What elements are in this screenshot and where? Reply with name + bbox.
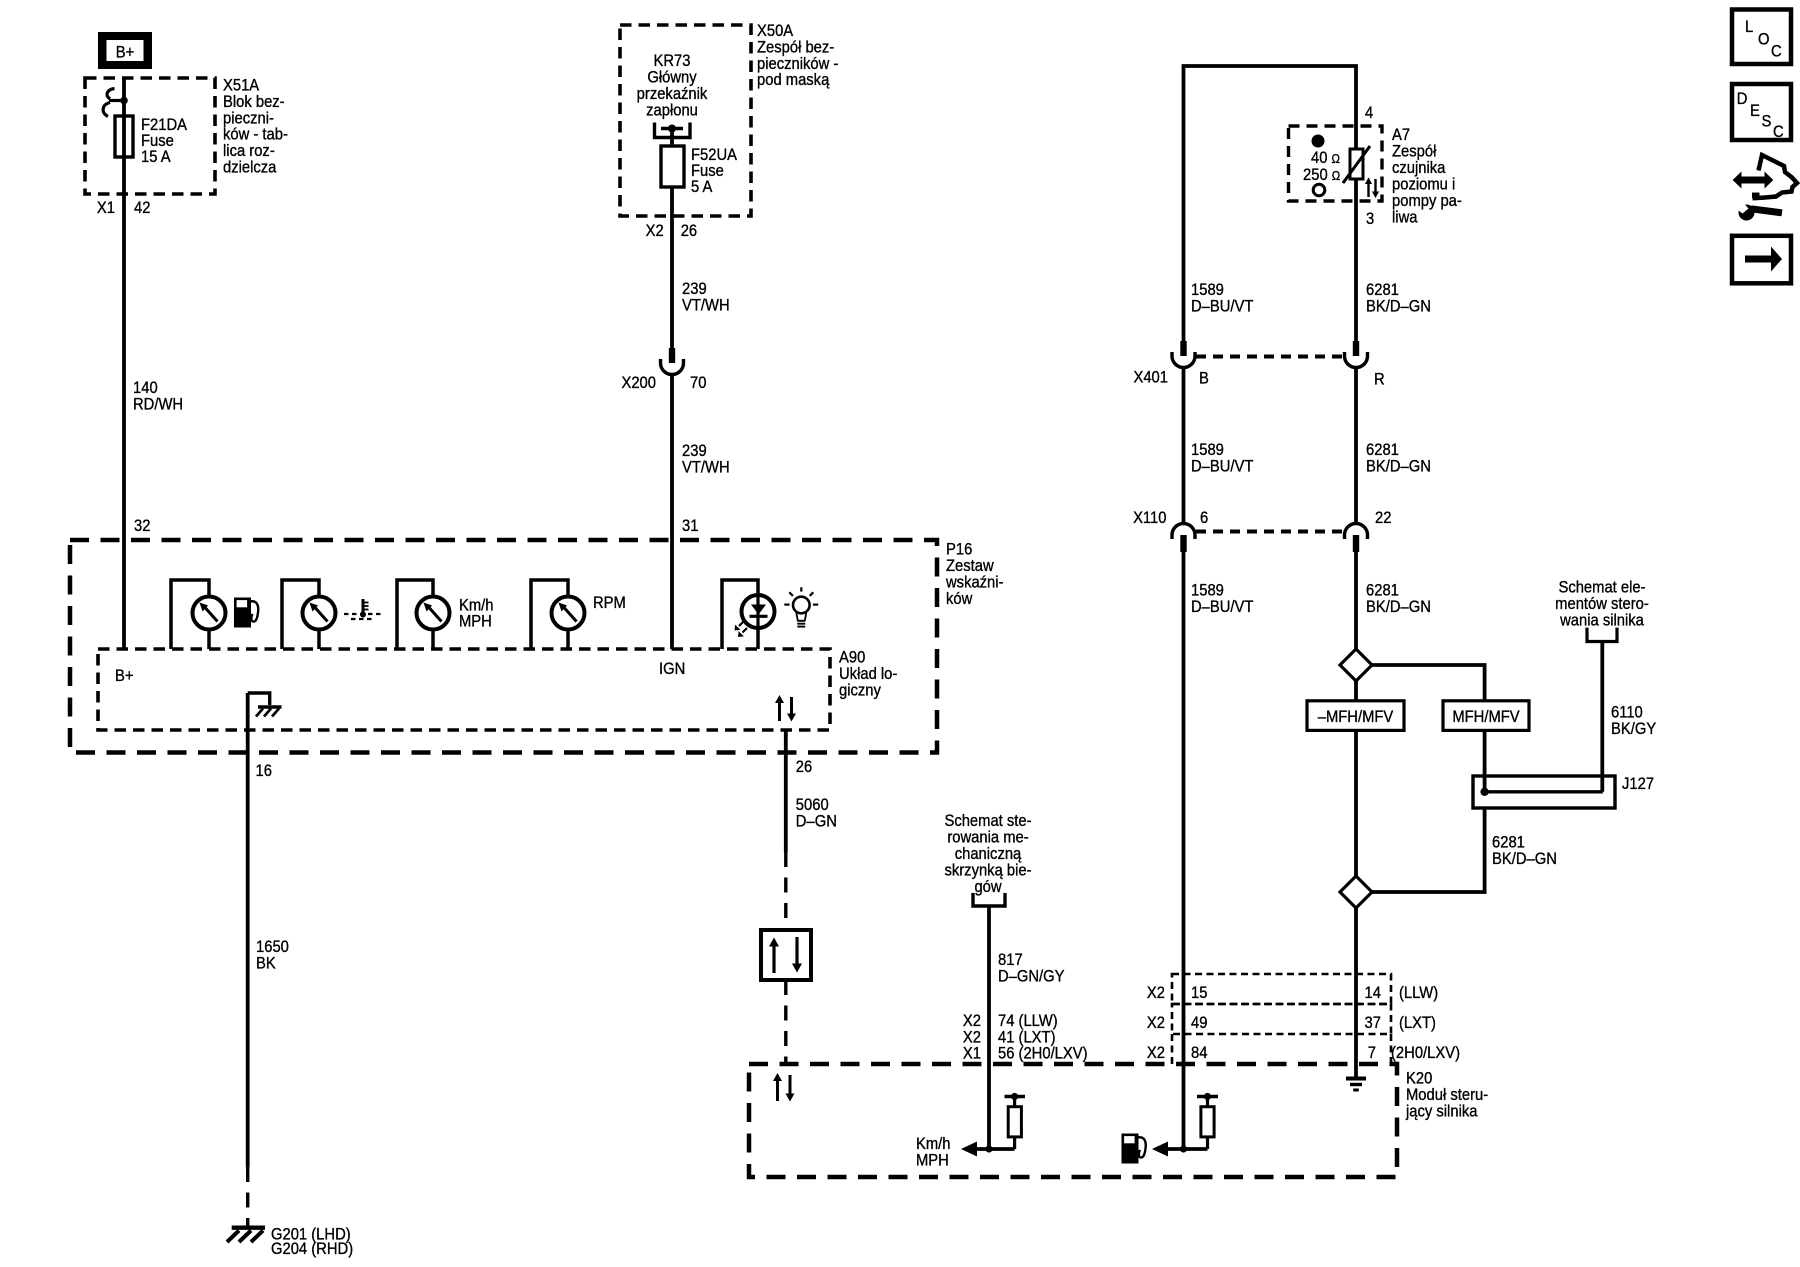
svg-text:X110: X110 (1133, 509, 1167, 527)
label 5060 D-GN (796, 796, 837, 831)
svg-text:C: C (1773, 123, 1784, 141)
indicator LED (722, 580, 775, 649)
fuel gauge (171, 580, 226, 649)
svg-text:1650: 1650 (256, 938, 289, 956)
svg-text:RPM: RPM (593, 594, 626, 612)
connector row LXT (1172, 1004, 1391, 1034)
label 1650 BK (256, 938, 289, 973)
box -MFH/MFV (1307, 701, 1404, 731)
svg-text:239: 239 (682, 280, 707, 298)
svg-text:B: B (1199, 370, 1209, 388)
label 6281 BK/D-GN (1366, 281, 1431, 316)
svg-text:czujnika: czujnika (1392, 159, 1446, 177)
svg-text:X200: X200 (621, 374, 656, 392)
connector X200 pin 70 (621, 348, 706, 392)
svg-text:1589: 1589 (1191, 582, 1224, 600)
label X50A Zespól bezpieczników pod maską (757, 22, 838, 89)
wire 1589 lower (1182, 552, 1186, 1149)
svg-text:D: D (1737, 90, 1748, 108)
label 1589 D-BU/VT third (1191, 582, 1254, 617)
svg-text:5060: 5060 (796, 796, 829, 814)
icon DESC (1732, 84, 1791, 141)
connector rows X2/X1 left (963, 1012, 1088, 1063)
variable resistor sender (1343, 146, 1370, 183)
svg-text:pompy pa-: pompy pa- (1392, 192, 1462, 210)
engine control module K20 box (749, 1064, 1397, 1177)
clip terminal in X51A (103, 89, 128, 117)
row labels right (1147, 984, 1460, 1062)
svg-text:P16: P16 (946, 541, 972, 559)
svg-text:74 (LLW): 74 (LLW) (998, 1012, 1058, 1030)
relay KR73 Główny przekaźnik zapłonu (637, 52, 708, 137)
svg-text:IGN: IGN (659, 660, 685, 678)
label A7 Zespół czujnika poziomu i pompy paliwa (1392, 126, 1462, 227)
svg-text:26: 26 (796, 758, 813, 776)
svg-text:zapłonu: zapłonu (646, 102, 698, 120)
svg-text:49: 49 (1191, 1014, 1208, 1032)
svg-text:VT/WH: VT/WH (682, 459, 730, 477)
wire 5060 D-GN (784, 730, 788, 852)
svg-text:R: R (1374, 371, 1385, 389)
svg-text:Układ lo-: Układ lo- (839, 665, 897, 683)
label 239 VT/WH (682, 280, 730, 315)
svg-text:O: O (1758, 31, 1770, 49)
wire 817 D-GN/GY (987, 906, 991, 1149)
svg-text:X401: X401 (1133, 369, 1168, 387)
wire from relay to fuse (670, 129, 674, 147)
wire 6281 through -MFH/MFV (1354, 681, 1358, 876)
svg-text:X2: X2 (963, 1012, 981, 1030)
label 1589 D-BU/VT second (1191, 441, 1254, 476)
instrument cluster P16 box (70, 540, 937, 753)
svg-text:Schemat ste-: Schemat ste- (944, 812, 1031, 830)
svg-text:pod maską: pod maską (757, 71, 829, 89)
svg-text:MPH: MPH (459, 613, 492, 631)
label 6110 BK/GY (1611, 704, 1657, 739)
fuse F52UA 5A (661, 146, 737, 196)
wire 6281 lower (1354, 552, 1358, 649)
dashed wire to K20 (784, 980, 787, 1064)
svg-text:dzielcza: dzielcza (223, 159, 277, 177)
label 6281 BK/D-GN third (1366, 582, 1431, 617)
svg-text:K20: K20 (1406, 1070, 1432, 1088)
box MFH/MFV (1443, 701, 1529, 731)
svg-text:BK: BK (256, 955, 276, 973)
svg-text:84: 84 (1191, 1044, 1208, 1062)
svg-text:BK/D–GN: BK/D–GN (1492, 850, 1557, 868)
label X51A Blok bezpieczników (223, 77, 288, 177)
svg-text:D–BU/VT: D–BU/VT (1191, 298, 1254, 316)
label A90 Układ logiczny (839, 649, 897, 700)
svg-text:40 Ω: 40 Ω (1311, 149, 1340, 167)
svg-text:6281: 6281 (1366, 582, 1399, 600)
connector row 2H0/LXV sides (1171, 1034, 1174, 1064)
svg-text:6281: 6281 (1366, 441, 1399, 459)
wire top loop A7 (1589/6281) (1184, 66, 1357, 341)
svg-text:42: 42 (134, 199, 151, 217)
label 1589 D-BU/VT (1191, 281, 1254, 316)
svg-text:KR73: KR73 (654, 52, 691, 70)
svg-text:3: 3 (1366, 210, 1374, 228)
svg-text:–MFH/MFV: –MFH/MFV (1318, 708, 1394, 726)
fuel pump icon K20 (1122, 1134, 1146, 1164)
connector X1 pin 42 (97, 199, 151, 217)
svg-text:wskaźni-: wskaźni- (945, 574, 1003, 592)
off-page: Schemat elementów sterowania silnika (1555, 579, 1649, 642)
connector X2 pin 26 (646, 222, 698, 240)
connector row LLW (1172, 974, 1391, 1004)
svg-text:BK/D–GN: BK/D–GN (1366, 298, 1431, 316)
power symbol B+ (98, 32, 152, 69)
svg-text:26: 26 (681, 222, 698, 240)
svg-text:7: 7 (1368, 1044, 1376, 1062)
wire 1650 BK ground wire (246, 693, 250, 1167)
svg-text:A7: A7 (1392, 126, 1410, 144)
svg-text:1589: 1589 (1191, 281, 1224, 299)
svg-text:817: 817 (998, 951, 1023, 969)
svg-text:S: S (1762, 113, 1772, 131)
wire 6281 middle (1354, 368, 1358, 524)
label 6281 BK/D-GN fourth (1492, 834, 1557, 869)
svg-text:MPH: MPH (916, 1152, 949, 1170)
icon LOC (1732, 10, 1791, 65)
connector X110 pin 6 (1172, 524, 1195, 553)
label 6281 BK/D-GN second (1366, 441, 1431, 476)
svg-text:E: E (1750, 102, 1760, 120)
svg-text:RD/WH: RD/WH (133, 396, 183, 414)
fuse block X51A box (85, 78, 215, 194)
svg-text:14: 14 (1365, 984, 1382, 1002)
svg-text:15 A: 15 A (141, 148, 171, 166)
svg-text:15: 15 (1191, 984, 1208, 1002)
svg-text:ków: ków (946, 590, 973, 608)
svg-text:37: 37 (1365, 1014, 1382, 1032)
connector X110 pin 22 (1345, 524, 1368, 553)
wire 1589 middle (1182, 368, 1186, 524)
svg-text:D–GN: D–GN (796, 813, 837, 831)
icon forward arrow (1732, 236, 1791, 283)
svg-text:C: C (1771, 43, 1782, 61)
splice diamond upper (1340, 649, 1372, 681)
svg-text:gów: gów (974, 878, 1002, 896)
svg-text:Moduł steru-: Moduł steru- (1406, 1086, 1488, 1104)
wire 140 RD/WH (B+ feed) (122, 78, 126, 649)
svg-text:mentów stero-: mentów stero- (1555, 595, 1649, 613)
svg-text:poziomu i: poziomu i (1392, 176, 1455, 194)
svg-text:(LXT): (LXT) (1399, 1014, 1436, 1032)
svg-text:16: 16 (256, 762, 273, 780)
Km/h MPH output (916, 1135, 1015, 1170)
speedometer gauge Km/h MPH (397, 580, 494, 649)
svg-text:31: 31 (682, 517, 699, 535)
wire from J127 to lower diamond (1372, 808, 1485, 892)
logic unit A90 box (98, 649, 830, 730)
svg-text:6281: 6281 (1492, 834, 1525, 852)
label X110 6 22 (1133, 509, 1392, 527)
svg-text:D–BU/VT: D–BU/VT (1191, 598, 1254, 616)
svg-text:X1: X1 (963, 1045, 981, 1063)
temp gauge (282, 580, 336, 649)
label P16 Zestaw wskaźników (945, 541, 1003, 609)
splice diamond lower (1340, 876, 1372, 908)
K20 data arrows (773, 1073, 795, 1102)
svg-text:J127: J127 (1622, 775, 1654, 793)
pull-up resistor fuel (1197, 1093, 1218, 1149)
data link box with arrows (761, 930, 811, 980)
svg-text:X2: X2 (646, 222, 664, 240)
svg-text:140: 140 (133, 379, 158, 397)
svg-text:A90: A90 (839, 649, 865, 667)
svg-text:1589: 1589 (1191, 441, 1224, 459)
svg-text:6110: 6110 (1611, 704, 1643, 722)
svg-text:D–BU/VT: D–BU/VT (1191, 458, 1254, 476)
fuse F21DA 15A (115, 116, 187, 166)
wire 239 VT/WH lower (670, 376, 674, 541)
svg-text:6: 6 (1200, 509, 1208, 527)
A7 level arrows (1365, 178, 1379, 199)
svg-text:MFH/MFV: MFH/MFV (1452, 708, 1520, 726)
svg-text:X2: X2 (1147, 1044, 1165, 1062)
bulb icon (784, 587, 818, 626)
svg-text:Km/h: Km/h (916, 1135, 951, 1153)
svg-text:Główny: Główny (647, 69, 696, 87)
svg-text:X2: X2 (1147, 984, 1165, 1002)
svg-text:B+: B+ (115, 667, 133, 685)
fuel pump icon (234, 598, 258, 628)
fuel sender A7 box (1289, 126, 1383, 201)
fuel signal output (1152, 1142, 1208, 1157)
connector X401 pin R (1345, 341, 1368, 368)
X401 jumper (1196, 355, 1344, 359)
svg-text:X2: X2 (1147, 1014, 1165, 1032)
svg-text:BK/D–GN: BK/D–GN (1366, 598, 1431, 616)
svg-text:jący silnika: jący silnika (1405, 1103, 1478, 1121)
svg-text:32: 32 (134, 517, 151, 535)
svg-text:6281: 6281 (1366, 281, 1399, 299)
svg-text:Zespół: Zespół (1392, 143, 1437, 161)
A7 empty mark (1313, 184, 1325, 196)
svg-text:G204 (RHD): G204 (RHD) (271, 1240, 353, 1258)
wire 6281 to K20 (1354, 908, 1358, 1078)
label 140 RD/WH (133, 379, 183, 414)
svg-text:chaniczną: chaniczną (955, 845, 1022, 863)
icon diagnostic car and wrench (1732, 155, 1797, 221)
svg-text:56 (2H0/LXV): 56 (2H0/LXV) (998, 1045, 1088, 1063)
fuse block X50A box (620, 25, 751, 216)
svg-text:giczny: giczny (839, 682, 881, 700)
A7 full mark (1312, 135, 1325, 148)
label K20 Moduł sterujący silnika (1405, 1070, 1488, 1121)
svg-text:przekaźnik: przekaźnik (637, 85, 708, 103)
A90 data arrows (775, 695, 796, 722)
ground stub inside A90 (248, 693, 282, 717)
svg-text:70: 70 (690, 374, 707, 392)
splice pack J127 (1473, 642, 1615, 809)
wire IGN feed inside P16 (670, 540, 674, 649)
svg-text:L: L (1745, 18, 1753, 36)
svg-text:wania silnika: wania silnika (1559, 612, 1644, 630)
off-page: Schemat sterowania mechaniczną skrzynką biegów (944, 812, 1031, 906)
svg-text:X1: X1 (97, 199, 115, 217)
X110 jumper (1196, 530, 1344, 534)
ground inside K20 (1346, 1079, 1366, 1091)
label 239 VT/WH second (682, 442, 730, 477)
svg-text:VT/WH: VT/WH (682, 297, 730, 315)
svg-text:BK/D–GN: BK/D–GN (1366, 458, 1431, 476)
svg-text:5 A: 5 A (691, 178, 713, 196)
connector X401 pin B (1172, 341, 1195, 368)
svg-text:liwa: liwa (1392, 209, 1418, 227)
label X401 B R (1133, 369, 1384, 389)
svg-text:(LLW): (LLW) (1399, 984, 1438, 1002)
svg-text:rowania me-: rowania me- (947, 829, 1028, 847)
pull-up resistor speed (1005, 1093, 1026, 1149)
svg-text:250 Ω: 250 Ω (1303, 166, 1340, 184)
svg-text:B+: B+ (116, 44, 134, 62)
svg-text:Schemat ele-: Schemat ele- (1558, 579, 1645, 597)
tachometer gauge RPM (531, 580, 626, 649)
svg-text:D–GN/GY: D–GN/GY (998, 968, 1065, 986)
svg-text:Zestaw: Zestaw (946, 557, 994, 575)
svg-text:4: 4 (1365, 104, 1373, 122)
svg-text:22: 22 (1375, 509, 1392, 527)
coolant temp icon (344, 599, 381, 619)
wire 239 VT/WH upper (670, 187, 674, 348)
svg-text:(2H0/LXV): (2H0/LXV) (1391, 1044, 1460, 1062)
svg-text:BK/GY: BK/GY (1611, 720, 1657, 738)
ground G201/G204 (227, 1226, 353, 1259)
wire to MFH/MFV (1372, 665, 1485, 701)
svg-text:239: 239 (682, 442, 707, 460)
svg-text:skrzynką bie-: skrzynką bie- (944, 862, 1031, 880)
label 817 D-GN/GY (998, 951, 1065, 986)
